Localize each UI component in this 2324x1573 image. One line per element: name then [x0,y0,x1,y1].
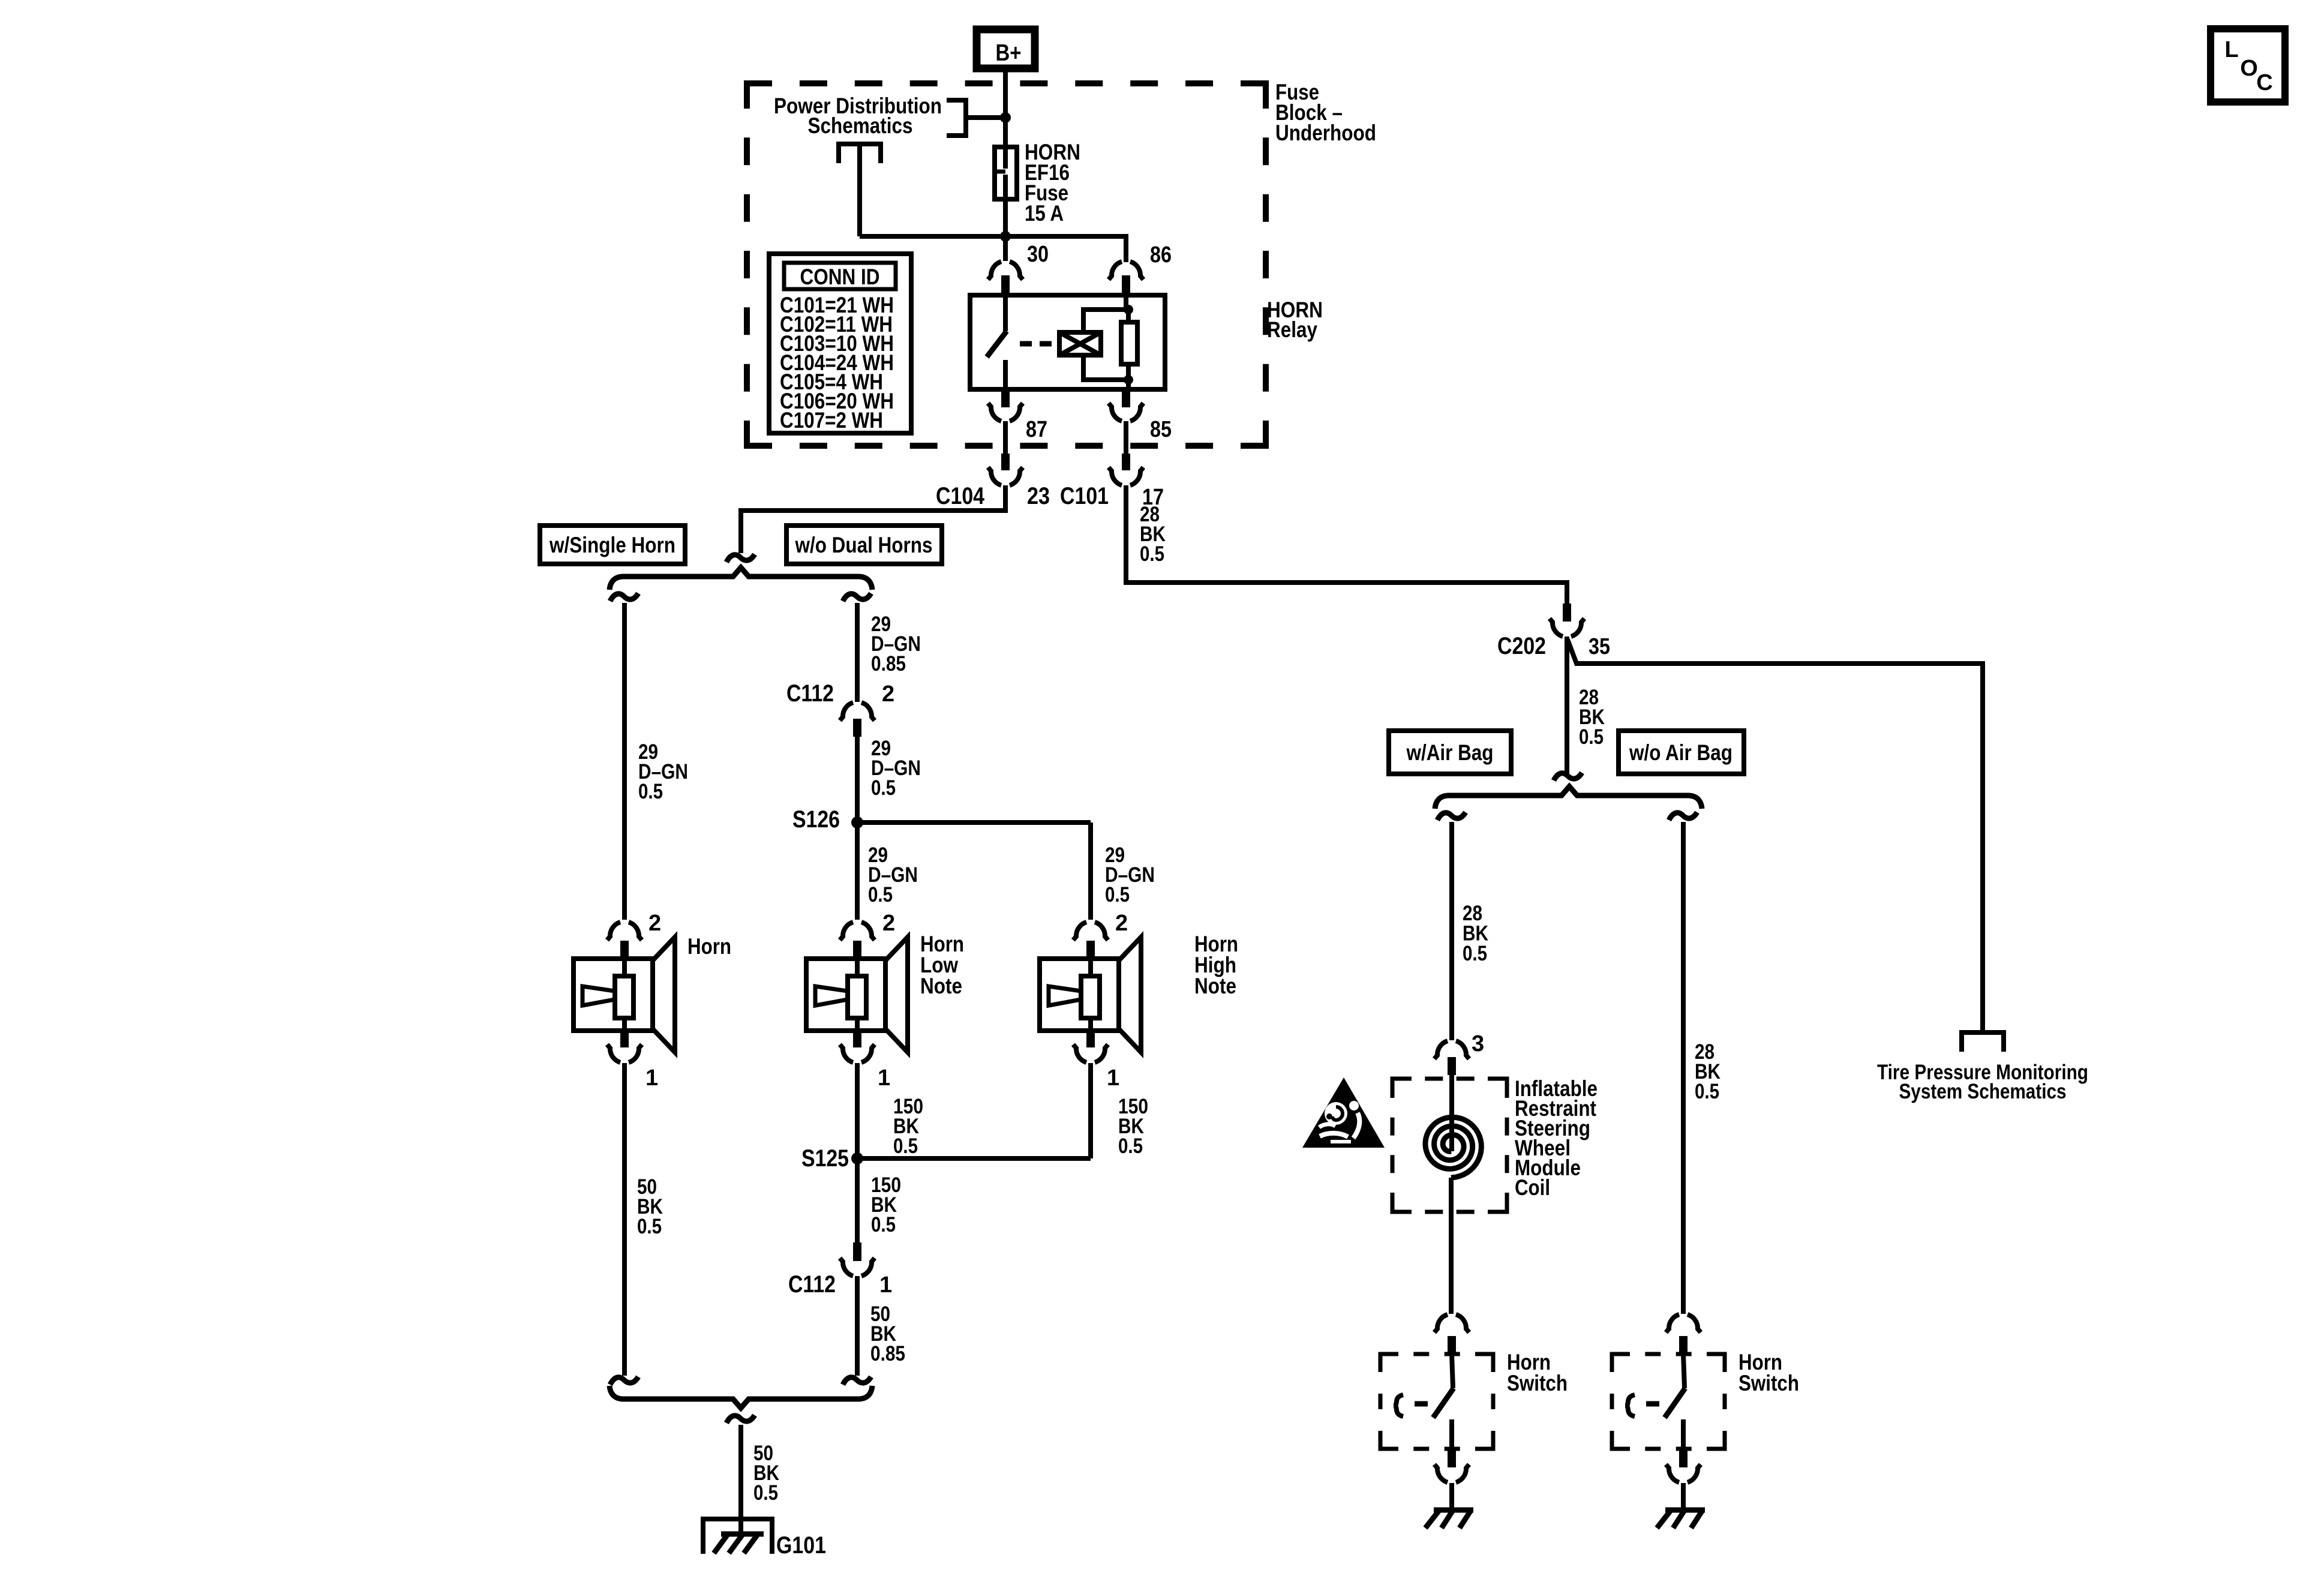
svg-text:2: 2 [882,682,894,707]
svg-text:23: 23 [1027,483,1050,509]
svg-text:0.5: 0.5 [1105,883,1130,906]
svg-text:Underhood: Underhood [1275,121,1376,145]
connector C104 female arc [988,467,1023,485]
wire 50 BK 0.5 from single horn [622,1063,627,1376]
wire fuse to pin 30 [1003,199,1008,261]
options brace (air bag variants) [1435,786,1702,809]
relay coil bottom connection [1083,355,1128,380]
LOC legend box [2211,29,2285,102]
svg-text:w/o Dual Horns: w/o Dual Horns [795,533,933,557]
component Horn High Note [1040,922,1141,1062]
reference side bracket [947,100,966,136]
terminal 87 connector arc [988,403,1023,421]
component Horn Switch (w/Air Bag) [1380,1314,1493,1509]
svg-text:Switch: Switch [1507,1371,1568,1395]
svg-text:CONN ID: CONN ID [800,265,880,289]
option break squiggle w/o Dual Horns [843,593,871,601]
connector C112-2 female arc [840,703,875,721]
svg-text:2: 2 [882,911,895,936]
relay switch lower contact to pin 87 [1003,360,1008,389]
component Horn Low Note [806,922,908,1062]
svg-text:L: L [2224,37,2238,62]
ground (chassis) below component Horn Switch (w/Air Bag) [1425,1510,1473,1528]
wire 28 BK 0.5 below C202 [1565,637,1569,775]
svg-text:0.5: 0.5 [868,883,893,906]
connector C101 female arc [1109,467,1143,485]
svg-text:C: C [2256,70,2272,95]
svg-text:0.5: 0.5 [871,776,896,800]
svg-text:1: 1 [879,1272,892,1298]
connector C112-1 female arc [840,1258,875,1276]
svg-text:C104: C104 [936,483,985,509]
fuse element upper [1003,147,1008,169]
wire horizontal to pin 86 branch [860,234,1128,239]
wire C112 to S126 [855,737,860,822]
svg-text:C112: C112 [786,680,834,707]
svg-text:Switch: Switch [1739,1371,1799,1395]
wire 150 BK 0.5 low note to S125 [855,1063,860,1158]
svg-text:1: 1 [645,1065,658,1091]
Fuse Block - Underhood dashed outline [747,83,1266,446]
wire down to pin 86 [1124,236,1128,262]
svg-text:2: 2 [1115,911,1128,936]
connector C112-1 male bar [853,1242,861,1261]
connector C202 female arc [1550,619,1584,637]
merge break squiggle below brace [726,1415,755,1423]
svg-text:O: O [2240,56,2258,81]
svg-text:0.5: 0.5 [1140,542,1164,566]
connector C112-2 male bar [853,719,861,737]
options brace (horn variants) [609,568,872,590]
svg-text:0.5: 0.5 [1579,725,1604,749]
svg-text:S125: S125 [801,1145,849,1172]
wire 29 D-GN 0.85 to C112 [855,603,860,702]
wire 150 BK 0.5 high note to S125 [1088,1063,1093,1158]
svg-text:86: 86 [1150,242,1172,268]
wire 28 BK 0.5 w/o air bag to horn switch [1681,822,1686,1314]
splice S125 [851,1152,863,1164]
option break squiggle w/Air Bag [1437,812,1466,820]
wire ref bracket to B+ node [966,115,1003,120]
wire resistor bottom to node [1126,364,1131,380]
svg-text:1: 1 [1107,1065,1119,1091]
svg-text:3: 3 [1472,1031,1484,1056]
relay switch blade [987,331,1007,357]
option break squiggle above air bag brace [1554,773,1582,781]
wire clockspring to horn switch [1449,1178,1454,1314]
svg-text:w/Air Bag: w/Air Bag [1406,740,1494,765]
wire high note to S125 [857,1156,1091,1161]
svg-text:0.5: 0.5 [638,780,663,803]
wire 28 BK 0.5 to coil [1449,822,1454,1040]
CONN ID header box [784,263,896,289]
svg-text:Relay: Relay [1267,317,1317,342]
svg-text:0.5: 0.5 [1463,942,1487,965]
wire S126 to low note horn [855,822,860,920]
option label box w/o Dual Horns [786,526,942,564]
merge break squiggle right [843,1377,871,1385]
wire ref bracket down [857,146,862,236]
svg-text:w/o Air Bag: w/o Air Bag [1629,740,1733,765]
svg-text:15 A: 15 A [1025,201,1064,226]
terminal 87 male bar [1001,389,1010,407]
svg-text:C112: C112 [788,1271,836,1298]
wire S126 branch to high note [857,820,1091,825]
wire down to high note horn [1088,822,1093,920]
coil terminal 3 connector arc [1434,1041,1469,1059]
svg-text:B+: B+ [996,40,1022,66]
relay coil box [1059,332,1101,355]
svg-text:C101: C101 [1060,483,1109,509]
fuse element tick [996,170,1005,174]
power node B+ box [977,29,1035,68]
relay coil X [1059,332,1101,355]
terminal 30 male bar [1001,275,1010,293]
component Horn (single) [574,922,675,1062]
connector C104 male bar [1001,454,1010,470]
fuse HORN EF16 15A [995,147,1017,199]
svg-text:0.5: 0.5 [753,1481,778,1505]
option label box w/o Air Bag [1619,731,1744,774]
wire node to resistor top [1126,310,1131,322]
reference bracket Power Distribution [839,144,881,163]
wire 85 to C101 [1124,421,1128,454]
fuse element lower [1003,175,1008,199]
relay resistor [1121,322,1137,364]
ground G101 [703,1519,772,1554]
component Horn Switch (w/o Air Bag) [1612,1314,1725,1509]
reference bracket Tire Pressure [1962,1032,2004,1052]
splice S126 [851,816,863,828]
svg-text:C107=2 WH: C107=2 WH [780,408,883,433]
svg-text:S126: S126 [792,806,840,833]
svg-text:35: 35 [1589,634,1610,659]
connector C101 male bar [1122,454,1130,470]
junction node below fuse [1000,231,1011,242]
svg-text:0.5: 0.5 [1118,1134,1143,1158]
svg-text:1: 1 [878,1065,890,1091]
svg-text:0.85: 0.85 [871,652,906,676]
CONN ID table outer box [769,254,911,433]
wire C202 pin 35 to tire pressure schematics [1568,640,1983,1032]
coil terminal 3 male bar [1448,1057,1456,1075]
terminal 85 connector arc [1109,403,1143,421]
relay coil top connection [1083,310,1128,332]
relay pin 86 stub [1124,295,1128,310]
Inflatable Restraint Steering Wheel Module Coil dashed box [1392,1079,1507,1212]
junction node below B+ [1000,112,1011,123]
relay K HORN Relay box [970,295,1165,389]
svg-text:2: 2 [648,911,661,936]
option break squiggle above brace [726,554,755,562]
merge brace to ground [609,1386,872,1408]
wire C104 to options brace [741,485,1005,553]
terminal 30 connector arc [988,262,1023,280]
svg-text:G101: G101 [776,1532,826,1559]
svg-text:System Schematics: System Schematics [1899,1080,2067,1103]
clockspring coil spiral [1425,1117,1481,1178]
relay internal node top [1124,305,1133,314]
relay switch fixed contact from pin 30 [1003,295,1008,331]
terminal 86 connector arc [1109,262,1143,280]
terminal 85 male bar [1122,389,1130,407]
svg-text:Horn: Horn [687,934,731,959]
svg-text:0.5: 0.5 [893,1134,918,1158]
svg-text:85: 85 [1150,417,1172,442]
svg-text:0.5: 0.5 [871,1213,896,1236]
svg-text:Note: Note [1194,974,1236,998]
svg-text:Coil: Coil [1515,1175,1550,1200]
air bag warning triangle icon [1302,1077,1385,1148]
svg-text:w/Single Horn: w/Single Horn [549,533,675,557]
wire 50 BK 0.85 from C112 [855,1276,860,1376]
option break squiggle w/Single Horn [610,593,638,601]
svg-text:Schematics: Schematics [808,113,913,138]
svg-text:Note: Note [920,974,962,998]
option label box w/Single Horn [540,526,685,564]
wire C101 to C202 [1126,485,1567,604]
wire S125 to C112-1 [855,1158,860,1242]
wire 29 D-GN 0.5 to single Horn [622,603,627,920]
wire into clockspring coil [1449,1075,1454,1151]
svg-text:87: 87 [1026,417,1047,442]
wire 87 to C104 [1003,421,1008,454]
svg-text:0.85: 0.85 [870,1342,905,1365]
option break squiggle w/o Air Bag [1669,812,1697,820]
svg-text:C202: C202 [1497,633,1546,659]
merge break squiggle left [610,1377,638,1385]
wire 50 BK 0.5 to G101 [738,1425,743,1533]
option label box w/Air Bag [1389,731,1511,774]
relay dashed actuation link [1020,341,1059,347]
svg-text:0.5: 0.5 [1695,1080,1719,1103]
terminal 86 male bar [1122,275,1130,293]
wire B+ to fuse [1003,72,1008,147]
relay pin 85 stub [1126,380,1131,389]
relay internal node bottom [1124,375,1133,385]
svg-text:30: 30 [1027,242,1049,267]
svg-text:0.5: 0.5 [637,1215,662,1238]
ground (chassis) below component Horn Switch (w/o Air Bag) [1657,1510,1705,1528]
connector C202 male bar [1563,604,1571,622]
